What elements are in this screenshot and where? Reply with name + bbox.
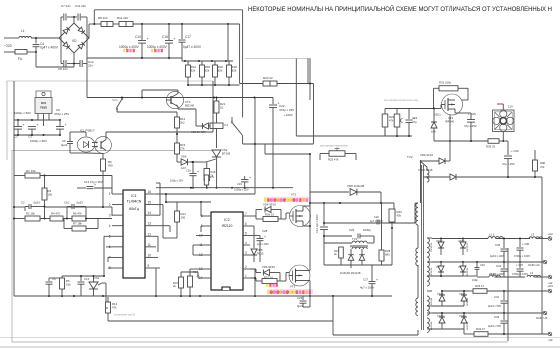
wire vertical x542 terminals — [541, 177, 543, 334]
wire — [362, 264, 392, 266]
wire — [14, 206, 25, 208]
capacitor C1 — [17, 120, 19, 126]
IC2 pin 13 — [204, 268, 211, 270]
svg-text:2: 2 — [109, 203, 111, 207]
capacitor C4 — [35, 38, 37, 44]
wire IC1 right pins — [156, 214, 160, 216]
svg-text:R8 110: R8 110 — [98, 16, 108, 20]
capacitor C24 47u — [408, 114, 410, 119]
svg-text:C10: C10 — [64, 201, 70, 205]
capacitor C11 — [77, 14, 79, 21]
svg-text:GND-U2: GND-U2 — [528, 263, 540, 267]
resistor R18 82k — [201, 61, 203, 65]
svg-text:100μ x 25V: 100μ x 25V — [170, 179, 183, 183]
svg-text:1: 1 — [245, 274, 247, 278]
svg-text:R11 110: R11 110 — [117, 16, 128, 20]
IC2 pin 12 — [204, 254, 211, 256]
resistor R12 2k2 — [176, 112, 178, 117]
svg-text:2k2: 2k2 — [180, 121, 185, 125]
svg-text:R18: R18 — [211, 170, 216, 174]
svg-text:82k: 82k — [191, 69, 196, 73]
svg-text:22n: 22n — [88, 63, 93, 67]
IC2 pin 11 — [204, 244, 211, 246]
wire — [340, 258, 342, 265]
svg-text:C31: C31 — [494, 295, 500, 299]
capacitor C5 — [48, 278, 50, 281]
svg-text:+U2: +U2 — [547, 232, 553, 236]
wire pin5 C5 — [104, 235, 112, 237]
IC1 pin 10 — [145, 256, 156, 258]
terminal -U3 — [548, 332, 552, 336]
capacitor C10 1000u400V — [141, 24, 143, 40]
capacitor C16 — [192, 162, 194, 173]
svg-text:60кГц: 60кГц — [129, 207, 139, 211]
IC2 pin 1 — [243, 277, 250, 279]
svg-text:30CPF06: 30CPF06 — [431, 242, 433, 252]
resistor R13 47k — [106, 302, 111, 313]
resistor R29 47k — [382, 114, 388, 127]
svg-text:1000μ x 50V: 1000μ x 50V — [14, 111, 31, 115]
svg-text:+: + — [264, 235, 266, 239]
svg-text:C23: C23 — [297, 296, 303, 300]
svg-text:47k: 47k — [389, 119, 394, 123]
svg-text:+: + — [94, 183, 96, 187]
resistor R38 — [533, 160, 538, 171]
wire — [180, 272, 182, 277]
terminal +U3 — [548, 289, 552, 293]
resistor R17 2k — [188, 276, 193, 287]
wire — [94, 275, 105, 277]
svg-text:IC3: IC3 — [41, 101, 46, 105]
IC1 pin 4 — [112, 225, 123, 227]
wire aux to VD9 VD10 — [426, 167, 428, 170]
svg-text:12V: 12V — [508, 105, 513, 109]
IC1 pin 14 — [145, 214, 156, 216]
capacitor C40 100p — [476, 262, 478, 267]
svg-text:+: + — [23, 123, 25, 127]
svg-text:82k: 82k — [232, 69, 237, 73]
svg-text:VS1: VS1 — [94, 276, 100, 280]
svg-text:680: 680 — [385, 253, 390, 257]
diode VD2 1N4007 — [216, 97, 218, 99]
highlight VT3 label — [266, 284, 268, 287]
svg-text:C2: C2 — [21, 201, 25, 205]
diode VD4 SF16 — [256, 209, 262, 211]
svg-text:7915: 7915 — [40, 106, 47, 110]
svg-text:100p: 100p — [472, 278, 478, 282]
capacitor C22 470u25V — [272, 98, 274, 105]
svg-text:VD6 SF16: VD6 SF16 — [262, 265, 275, 269]
wire — [13, 120, 15, 135]
svg-text:НЕКОТОРЫЕ НОМИНАЛЫ НА ПРИНЦИПИ: НЕКОТОРЫЕ НОМИНАЛЫ НА ПРИНЦИПИАЛЬНОЙ СХЕ… — [248, 4, 552, 13]
IC2 pin 7 — [243, 215, 250, 217]
wire — [117, 111, 177, 113]
svg-text:VT2: VT2 — [291, 193, 297, 197]
svg-text:R1 10k: R1 10k — [26, 169, 36, 173]
IC1 pin 8 — [112, 267, 123, 269]
svg-text:C40: C40 — [480, 263, 485, 267]
svg-text:R2 10k: R2 10k — [26, 212, 35, 216]
svg-text:L1.1: L1.1 — [489, 233, 495, 237]
svg-text:+: + — [376, 278, 378, 282]
wire — [177, 90, 179, 94]
zener VD5 — [250, 225, 254, 227]
resistor R11 110 — [119, 22, 133, 27]
svg-text:+: + — [197, 170, 199, 174]
optocoupler IC4 PS817 — [77, 137, 95, 152]
svg-text:47μ: 47μ — [412, 120, 417, 124]
IC1 pin 7 — [112, 256, 123, 258]
enclosure border main — [12, 151, 508, 343]
terminal GND U3 — [543, 311, 547, 315]
svg-text:VD11: VD11 — [434, 113, 441, 117]
wire mid rail — [310, 202, 394, 204]
svg-text:отключение при КЗ: отключение при КЗ — [114, 314, 136, 317]
IC2 pin 6 — [243, 225, 250, 227]
svg-text:4700μ x 100V: 4700μ x 100V — [514, 254, 530, 258]
wire — [385, 108, 434, 110]
relay K1 coil — [210, 123, 223, 129]
svg-text:0μ33: 0μ33 — [77, 201, 84, 205]
svg-text:+: + — [147, 37, 149, 41]
capacitor C3 — [31, 125, 33, 127]
bridge rectifier VD — [59, 23, 89, 53]
svg-text:IC2: IC2 — [224, 218, 229, 222]
potentiometer R25 47k — [329, 151, 345, 157]
IC1 pin 15 — [145, 204, 156, 206]
capacitor C21 1u0 400V — [323, 203, 325, 226]
svg-text:4: 4 — [109, 224, 111, 228]
svg-text:1000μ x 400V: 1000μ x 400V — [147, 45, 168, 49]
wire — [155, 268, 157, 296]
wire + bus — [133, 23, 240, 25]
wire — [85, 132, 87, 136]
resistor R30 43k — [393, 203, 395, 209]
MOSFET VT3 — [289, 265, 310, 286]
capacitor C16 1000u400V — [168, 24, 170, 40]
svg-text:VD9 SF16: VD9 SF16 — [420, 153, 433, 157]
svg-text:~220: ~220 — [4, 44, 12, 48]
diode VD8b 1N4148 — [361, 249, 363, 254]
resistor R9 430 — [102, 153, 104, 159]
svg-text:R34 47: R34 47 — [476, 327, 485, 331]
svg-text:51: 51 — [220, 106, 224, 110]
svg-text:0μ22: 0μ22 — [61, 143, 68, 147]
IC1 pin 11 — [145, 246, 156, 248]
MOSFET VT4 IRF540 — [442, 94, 463, 115]
IC2 pin 8 — [204, 215, 211, 217]
svg-text:регулировка напряжения: регулировка напряжения — [320, 145, 349, 148]
transistor VT1 — [166, 91, 183, 108]
svg-text:-U3: -U3 — [548, 338, 553, 342]
svg-text:0μ33: 0μ33 — [34, 201, 41, 205]
capacitor C28 — [250, 235, 260, 237]
svg-text:5: 5 — [245, 232, 247, 236]
svg-text:L3: L3 — [530, 271, 534, 275]
svg-text:0μ33 x 50V: 0μ33 x 50V — [488, 304, 501, 308]
resistor R3 10k — [44, 176, 46, 189]
IC2 pin 5 — [243, 235, 250, 237]
IC1 pin 12 — [145, 235, 156, 237]
IC1 pin 3 — [112, 214, 123, 216]
svg-text:0μ47 x 400V: 0μ47 x 400V — [40, 46, 59, 50]
resistor R5 10k — [60, 278, 65, 289]
wire top bypass — [94, 9, 242, 11]
svg-text:27k: 27k — [210, 175, 215, 179]
svg-text:R32 100k: R32 100k — [439, 81, 452, 85]
capacitor C19 1000u — [241, 179, 249, 181]
svg-text:82k: 82k — [218, 69, 223, 73]
svg-text:3: 3 — [245, 251, 247, 255]
wire vertical from + bus — [239, 24, 241, 84]
svg-text:0μ22: 0μ22 — [297, 304, 304, 308]
AC input ~220 — [4, 37, 19, 39]
svg-text:R7 18k: R7 18k — [73, 222, 82, 226]
svg-text:1000p: 1000p — [363, 228, 371, 232]
IC1 pin 2 — [112, 204, 123, 206]
svg-text:+: + — [65, 123, 67, 127]
svg-text:C10: C10 — [135, 35, 141, 39]
resistor R16 2k — [179, 277, 184, 288]
IC2 pin 9 — [204, 225, 211, 227]
svg-text:L2: L2 — [531, 233, 535, 237]
wire bus — [14, 119, 60, 121]
svg-text:+U3: +U3 — [547, 284, 553, 288]
svg-text:C21 1μ0 x 400V: C21 1μ0 x 400V — [315, 214, 319, 233]
resistor R18 — [206, 162, 208, 169]
svg-text:11: 11 — [148, 243, 152, 247]
svg-text:10k: 10k — [48, 193, 53, 197]
svg-text:4700μ x 100V: 4700μ x 100V — [512, 272, 528, 276]
svg-text:0μ33 x 100V: 0μ33 x 100V — [490, 254, 505, 258]
svg-text:HER308: HER308 — [467, 297, 469, 306]
svg-text:VT3: VT3 — [290, 285, 296, 289]
wire — [108, 256, 112, 258]
svg-text:R38: R38 — [540, 161, 545, 165]
resistor R23 22 — [240, 83, 263, 85]
switch SA1 — [121, 98, 123, 100]
svg-text:+310V: +310V — [284, 113, 293, 117]
relay K1 contact — [231, 117, 233, 121]
svg-text:C7 22n: C7 22n — [61, 4, 71, 8]
wire gnd u3 — [432, 312, 508, 314]
MOSFET VT2 — [290, 206, 311, 227]
svg-text:43k: 43k — [397, 214, 402, 218]
svg-text:30CPF06: 30CPF06 — [467, 267, 469, 277]
svg-text:C14: C14 — [84, 277, 90, 281]
svg-text:470μ x 25V: 470μ x 25V — [54, 112, 69, 116]
svg-text:L1: L1 — [21, 29, 25, 33]
capacitor C6 0u22 — [69, 139, 71, 141]
wire — [188, 84, 240, 86]
wire + rail — [88, 24, 90, 38]
svg-text:1: 1 — [109, 192, 111, 196]
svg-text:1000μ x 25V: 1000μ x 25V — [234, 188, 249, 192]
wire — [73, 53, 75, 64]
svg-text:FU: FU — [18, 57, 23, 61]
wire rail y97.5 — [86, 64, 88, 98]
svg-text:6: 6 — [245, 222, 247, 226]
IC2 pin 14 — [204, 277, 211, 279]
resistor R8 110 — [101, 22, 113, 27]
IC3 7915 regulator — [36, 91, 51, 98]
svg-text:430: 430 — [108, 164, 113, 168]
svg-text:47k: 47k — [540, 165, 545, 169]
svg-text:1000μ x 50V: 1000μ x 50V — [30, 139, 47, 143]
svg-text:регулировка ограничения тока: регулировка ограничения тока — [384, 99, 419, 102]
svg-text:30CPF06: 30CPF06 — [431, 267, 433, 277]
wire gnd row — [432, 261, 508, 263]
svg-text:C35: C35 — [495, 243, 501, 247]
svg-text:R6 47k: R6 47k — [73, 212, 82, 216]
wire secondary taps — [427, 237, 432, 239]
wire — [102, 282, 106, 284]
capacitor C8 — [61, 63, 63, 65]
capacitor C7 — [61, 16, 63, 18]
svg-text:3: 3 — [109, 213, 111, 217]
wire - bus — [87, 57, 182, 59]
svg-text:14: 14 — [148, 211, 152, 215]
resistor R14 82k — [187, 61, 189, 65]
resistor R22 82k — [228, 61, 230, 65]
IC1 pin 13 — [145, 225, 156, 227]
wire — [250, 215, 256, 217]
wire — [111, 176, 113, 195]
footer lines — [0, 337, 560, 339]
diode VD7 1N4148 — [350, 249, 352, 254]
terminal GND-U2 — [508, 261, 543, 263]
wire VT2 source — [303, 225, 310, 227]
svg-text:IC1: IC1 — [131, 194, 136, 198]
fan 12V — [493, 110, 515, 132]
svg-text:+: + — [37, 123, 39, 127]
zener VD4 12V — [176, 154, 178, 162]
wire 12V rail — [156, 187, 293, 189]
svg-text:10: 10 — [148, 253, 152, 257]
wire pin6 R5 — [106, 246, 112, 248]
svg-text:47k: 47k — [112, 306, 117, 310]
diode VD6 SF16 — [250, 268, 256, 270]
svg-text:C26: C26 — [374, 215, 379, 219]
wire sense line — [108, 320, 333, 322]
svg-text:VD: VD — [72, 39, 77, 43]
wire — [496, 238, 530, 240]
svg-text:C8 22n: C8 22n — [58, 67, 68, 71]
capacitor C9 — [59, 120, 61, 126]
svg-text:C11 22n: C11 22n — [75, 4, 86, 8]
svg-text:R26 10: R26 10 — [265, 213, 274, 217]
svg-text:+: + — [249, 176, 251, 180]
resistor R36 33 — [434, 140, 488, 142]
svg-text:BT169: BT169 — [222, 152, 231, 156]
svg-text:12: 12 — [148, 232, 152, 236]
wire — [13, 175, 15, 296]
IC1 TL494CN — [123, 190, 145, 278]
wire — [35, 52, 37, 67]
IC2 pin 3 — [243, 254, 250, 256]
wire — [250, 254, 252, 256]
svg-text:VD4 SF16: VD4 SF16 — [263, 203, 276, 207]
svg-text:9: 9 — [148, 264, 150, 268]
svg-text:TL494CN: TL494CN — [127, 200, 142, 204]
highlight — [123, 49, 125, 52]
svg-text:R33 47: R33 47 — [475, 284, 484, 288]
svg-text:C19: C19 — [237, 182, 242, 186]
svg-text:13: 13 — [148, 222, 152, 226]
resistor R1 10k — [14, 175, 25, 177]
svg-text:IR2110: IR2110 — [222, 224, 233, 228]
IC1 pin 9 — [145, 267, 156, 269]
enclosure border outer — [7, 81, 213, 160]
wire pin16 net — [156, 193, 255, 195]
svg-text:VD8 1N4148: VD8 1N4148 — [347, 184, 365, 188]
wire bottom gnd bus — [14, 295, 392, 297]
svg-text:0μ33 x 50V: 0μ33 x 50V — [488, 324, 501, 328]
svg-text:1N4148 1N4148: 1N4148 1N4148 — [340, 271, 361, 275]
resistor R27 2k — [340, 248, 342, 250]
svg-text:R25 47k: R25 47k — [328, 158, 339, 162]
svg-text:9V15: 9V15 — [257, 252, 264, 256]
wire — [177, 107, 179, 110]
wire — [227, 24, 229, 61]
wire soft start path — [307, 59, 309, 84]
svg-text:15: 15 — [148, 201, 152, 205]
IC2 IR2110 — [211, 212, 243, 290]
terminal -U2 — [548, 275, 552, 279]
svg-text:82k: 82k — [205, 69, 210, 73]
svg-text:C33: C33 — [494, 315, 500, 319]
wire — [254, 98, 256, 195]
svg-text:C16: C16 — [162, 35, 168, 39]
svg-text:C25: C25 — [349, 228, 355, 232]
wire — [203, 215, 205, 217]
IC1 pin 1 — [112, 193, 123, 195]
svg-text:+: + — [174, 37, 176, 41]
fuse FU — [15, 50, 27, 55]
highlight — [151, 49, 153, 52]
capacitor C12 — [79, 60, 81, 67]
svg-text:4: 4 — [245, 241, 247, 245]
resistor R24 100 — [176, 202, 178, 211]
svg-text:100: 100 — [181, 216, 186, 220]
IC1 pin 6 — [112, 246, 123, 248]
IC1 pin 16 — [145, 193, 156, 195]
capacitor C14 — [80, 278, 82, 281]
svg-text:C17: C17 — [185, 35, 191, 39]
svg-text:C27: C27 — [363, 278, 369, 282]
resistor R15 27k — [176, 140, 178, 143]
wire current limit return — [295, 59, 297, 137]
wire primary — [324, 222, 415, 224]
svg-text:C34: C34 — [496, 264, 502, 268]
svg-text:47μ x 25V: 47μ x 25V — [464, 124, 477, 128]
svg-text:VD4: VD4 — [181, 155, 187, 159]
wire gnd bus — [14, 134, 60, 136]
svg-text:HER308: HER308 — [431, 297, 433, 306]
svg-text:TV2: TV2 — [407, 155, 413, 159]
svg-text:R36 33: R36 33 — [486, 145, 495, 149]
wire relay to HV — [243, 143, 314, 145]
potentiometer — [394, 114, 400, 127]
svg-text:R4 470: R4 470 — [51, 212, 60, 216]
svg-text:+ C38: + C38 — [522, 242, 530, 246]
IC2 pin 4 — [243, 244, 250, 246]
svg-text:C16: C16 — [186, 169, 191, 173]
thyristor VS2 — [212, 150, 221, 157]
svg-text:TV1: TV1 — [352, 237, 358, 241]
svg-text:C28: C28 — [262, 229, 268, 233]
resistor R20 82k — [214, 61, 216, 65]
